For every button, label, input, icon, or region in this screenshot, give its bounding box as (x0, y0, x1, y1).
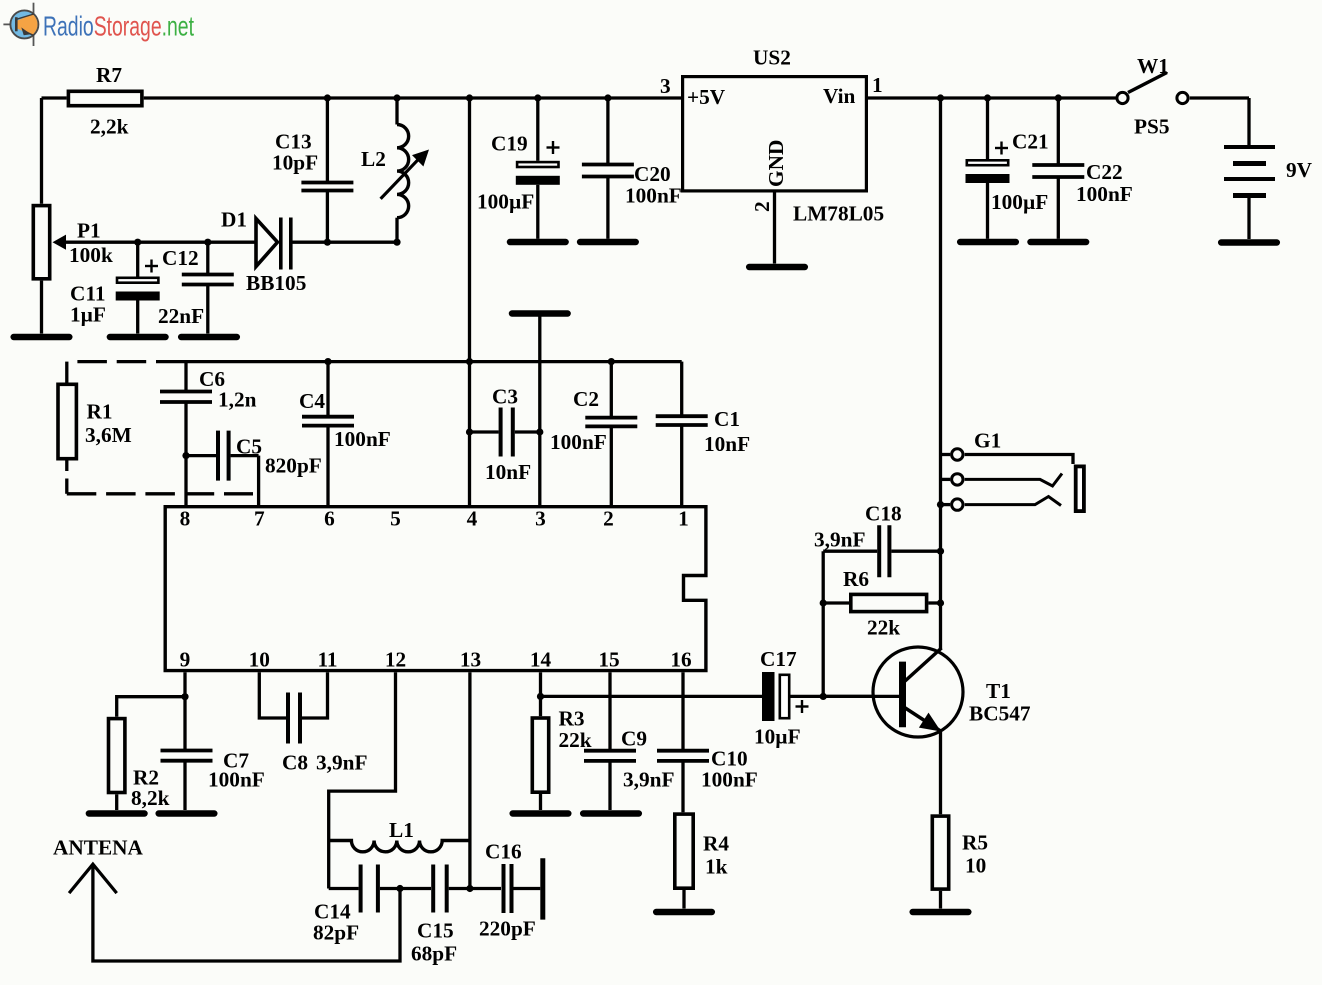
svg-text:10: 10 (249, 648, 270, 672)
svg-text:100nF: 100nF (625, 184, 682, 208)
svg-text:12: 12 (385, 648, 406, 672)
svg-text:100µF: 100µF (477, 190, 534, 214)
svg-text:C20: C20 (634, 162, 671, 186)
svg-text:22nF: 22nF (158, 304, 204, 328)
svg-text:16: 16 (670, 648, 692, 672)
svg-text:100µF: 100µF (991, 190, 1048, 214)
svg-text:Vin: Vin (823, 84, 856, 108)
svg-text:100nF: 100nF (1076, 182, 1133, 206)
svg-text:R6: R6 (843, 567, 869, 591)
svg-text:C5: C5 (236, 435, 262, 459)
svg-text:P1: P1 (77, 219, 101, 243)
svg-text:4: 4 (467, 507, 478, 531)
svg-text:100nF: 100nF (334, 427, 391, 451)
svg-text:C19: C19 (491, 132, 528, 156)
svg-text:PS5: PS5 (1134, 115, 1170, 139)
svg-text:22k: 22k (559, 728, 592, 752)
svg-text:ANTENA: ANTENA (53, 836, 144, 860)
svg-text:3: 3 (660, 74, 671, 98)
svg-text:3,9nF: 3,9nF (814, 528, 865, 552)
svg-text:BC547: BC547 (969, 702, 1031, 726)
svg-text:BB105: BB105 (246, 271, 306, 295)
svg-text:D1: D1 (221, 208, 247, 232)
svg-text:R4: R4 (703, 832, 729, 856)
svg-text:T1: T1 (986, 679, 1011, 703)
svg-text:R1: R1 (87, 400, 113, 424)
svg-text:C15: C15 (417, 919, 454, 943)
svg-text:1: 1 (872, 73, 883, 97)
svg-text:GND: GND (764, 140, 788, 187)
svg-text:10pF: 10pF (272, 151, 318, 175)
svg-text:9: 9 (180, 648, 191, 672)
svg-text:C12: C12 (162, 246, 199, 270)
svg-text:10µF: 10µF (754, 725, 801, 749)
svg-text:R5: R5 (962, 831, 988, 855)
svg-text:W1: W1 (1137, 54, 1169, 78)
svg-text:C3: C3 (492, 385, 518, 409)
svg-text:1µF: 1µF (70, 303, 106, 327)
svg-text:14: 14 (530, 648, 552, 672)
svg-text:3,6M: 3,6M (85, 423, 132, 447)
svg-text:100nF: 100nF (701, 768, 758, 792)
svg-text:22k: 22k (867, 616, 900, 640)
svg-text:C18: C18 (865, 502, 902, 526)
svg-text:R7: R7 (96, 63, 122, 87)
svg-text:820pF: 820pF (265, 454, 322, 478)
svg-text:L1: L1 (389, 818, 414, 842)
svg-text:C1: C1 (714, 407, 740, 431)
svg-text:C9: C9 (621, 727, 647, 751)
svg-text:+5V: +5V (687, 85, 726, 109)
svg-text:C4: C4 (299, 389, 325, 413)
svg-text:2: 2 (750, 201, 774, 212)
svg-text:RadioStorage.net: RadioStorage.net (43, 11, 194, 42)
svg-text:1k: 1k (705, 855, 728, 879)
svg-text:82pF: 82pF (313, 921, 359, 945)
svg-text:C8: C8 (282, 751, 308, 775)
svg-text:10nF: 10nF (485, 460, 531, 484)
svg-text:11: 11 (317, 648, 337, 672)
svg-text:10: 10 (965, 854, 986, 878)
svg-text:C22: C22 (1086, 160, 1123, 184)
svg-text:5: 5 (390, 507, 401, 531)
svg-text:L2: L2 (361, 147, 386, 171)
svg-text:3,9nF: 3,9nF (623, 768, 674, 792)
svg-text:15: 15 (598, 648, 619, 672)
svg-text:100k: 100k (69, 243, 113, 267)
svg-text:3: 3 (535, 507, 546, 531)
svg-text:10nF: 10nF (704, 432, 750, 456)
svg-text:9V: 9V (1286, 158, 1313, 182)
svg-text:7: 7 (254, 507, 265, 531)
svg-text:R3: R3 (559, 707, 585, 731)
svg-text:C2: C2 (573, 387, 599, 411)
svg-text:C21: C21 (1012, 130, 1049, 154)
svg-text:100nF: 100nF (550, 430, 607, 454)
svg-text:13: 13 (460, 648, 481, 672)
svg-text:2,2k: 2,2k (90, 115, 129, 139)
svg-text:1: 1 (678, 507, 689, 531)
svg-text:LM78L05: LM78L05 (793, 202, 884, 226)
svg-text:68pF: 68pF (411, 942, 457, 966)
svg-text:8,2k: 8,2k (131, 786, 170, 810)
svg-text:8: 8 (180, 507, 191, 531)
svg-text:1,2n: 1,2n (218, 388, 257, 412)
svg-text:100nF: 100nF (208, 768, 265, 792)
svg-text:2: 2 (603, 507, 614, 531)
svg-text:3,9nF: 3,9nF (316, 751, 367, 775)
svg-text:6: 6 (324, 507, 335, 531)
svg-text:C17: C17 (760, 647, 797, 671)
svg-text:220pF: 220pF (479, 917, 536, 941)
svg-text:C16: C16 (485, 840, 522, 864)
svg-text:G1: G1 (974, 429, 1001, 453)
svg-text:US2: US2 (753, 46, 791, 70)
